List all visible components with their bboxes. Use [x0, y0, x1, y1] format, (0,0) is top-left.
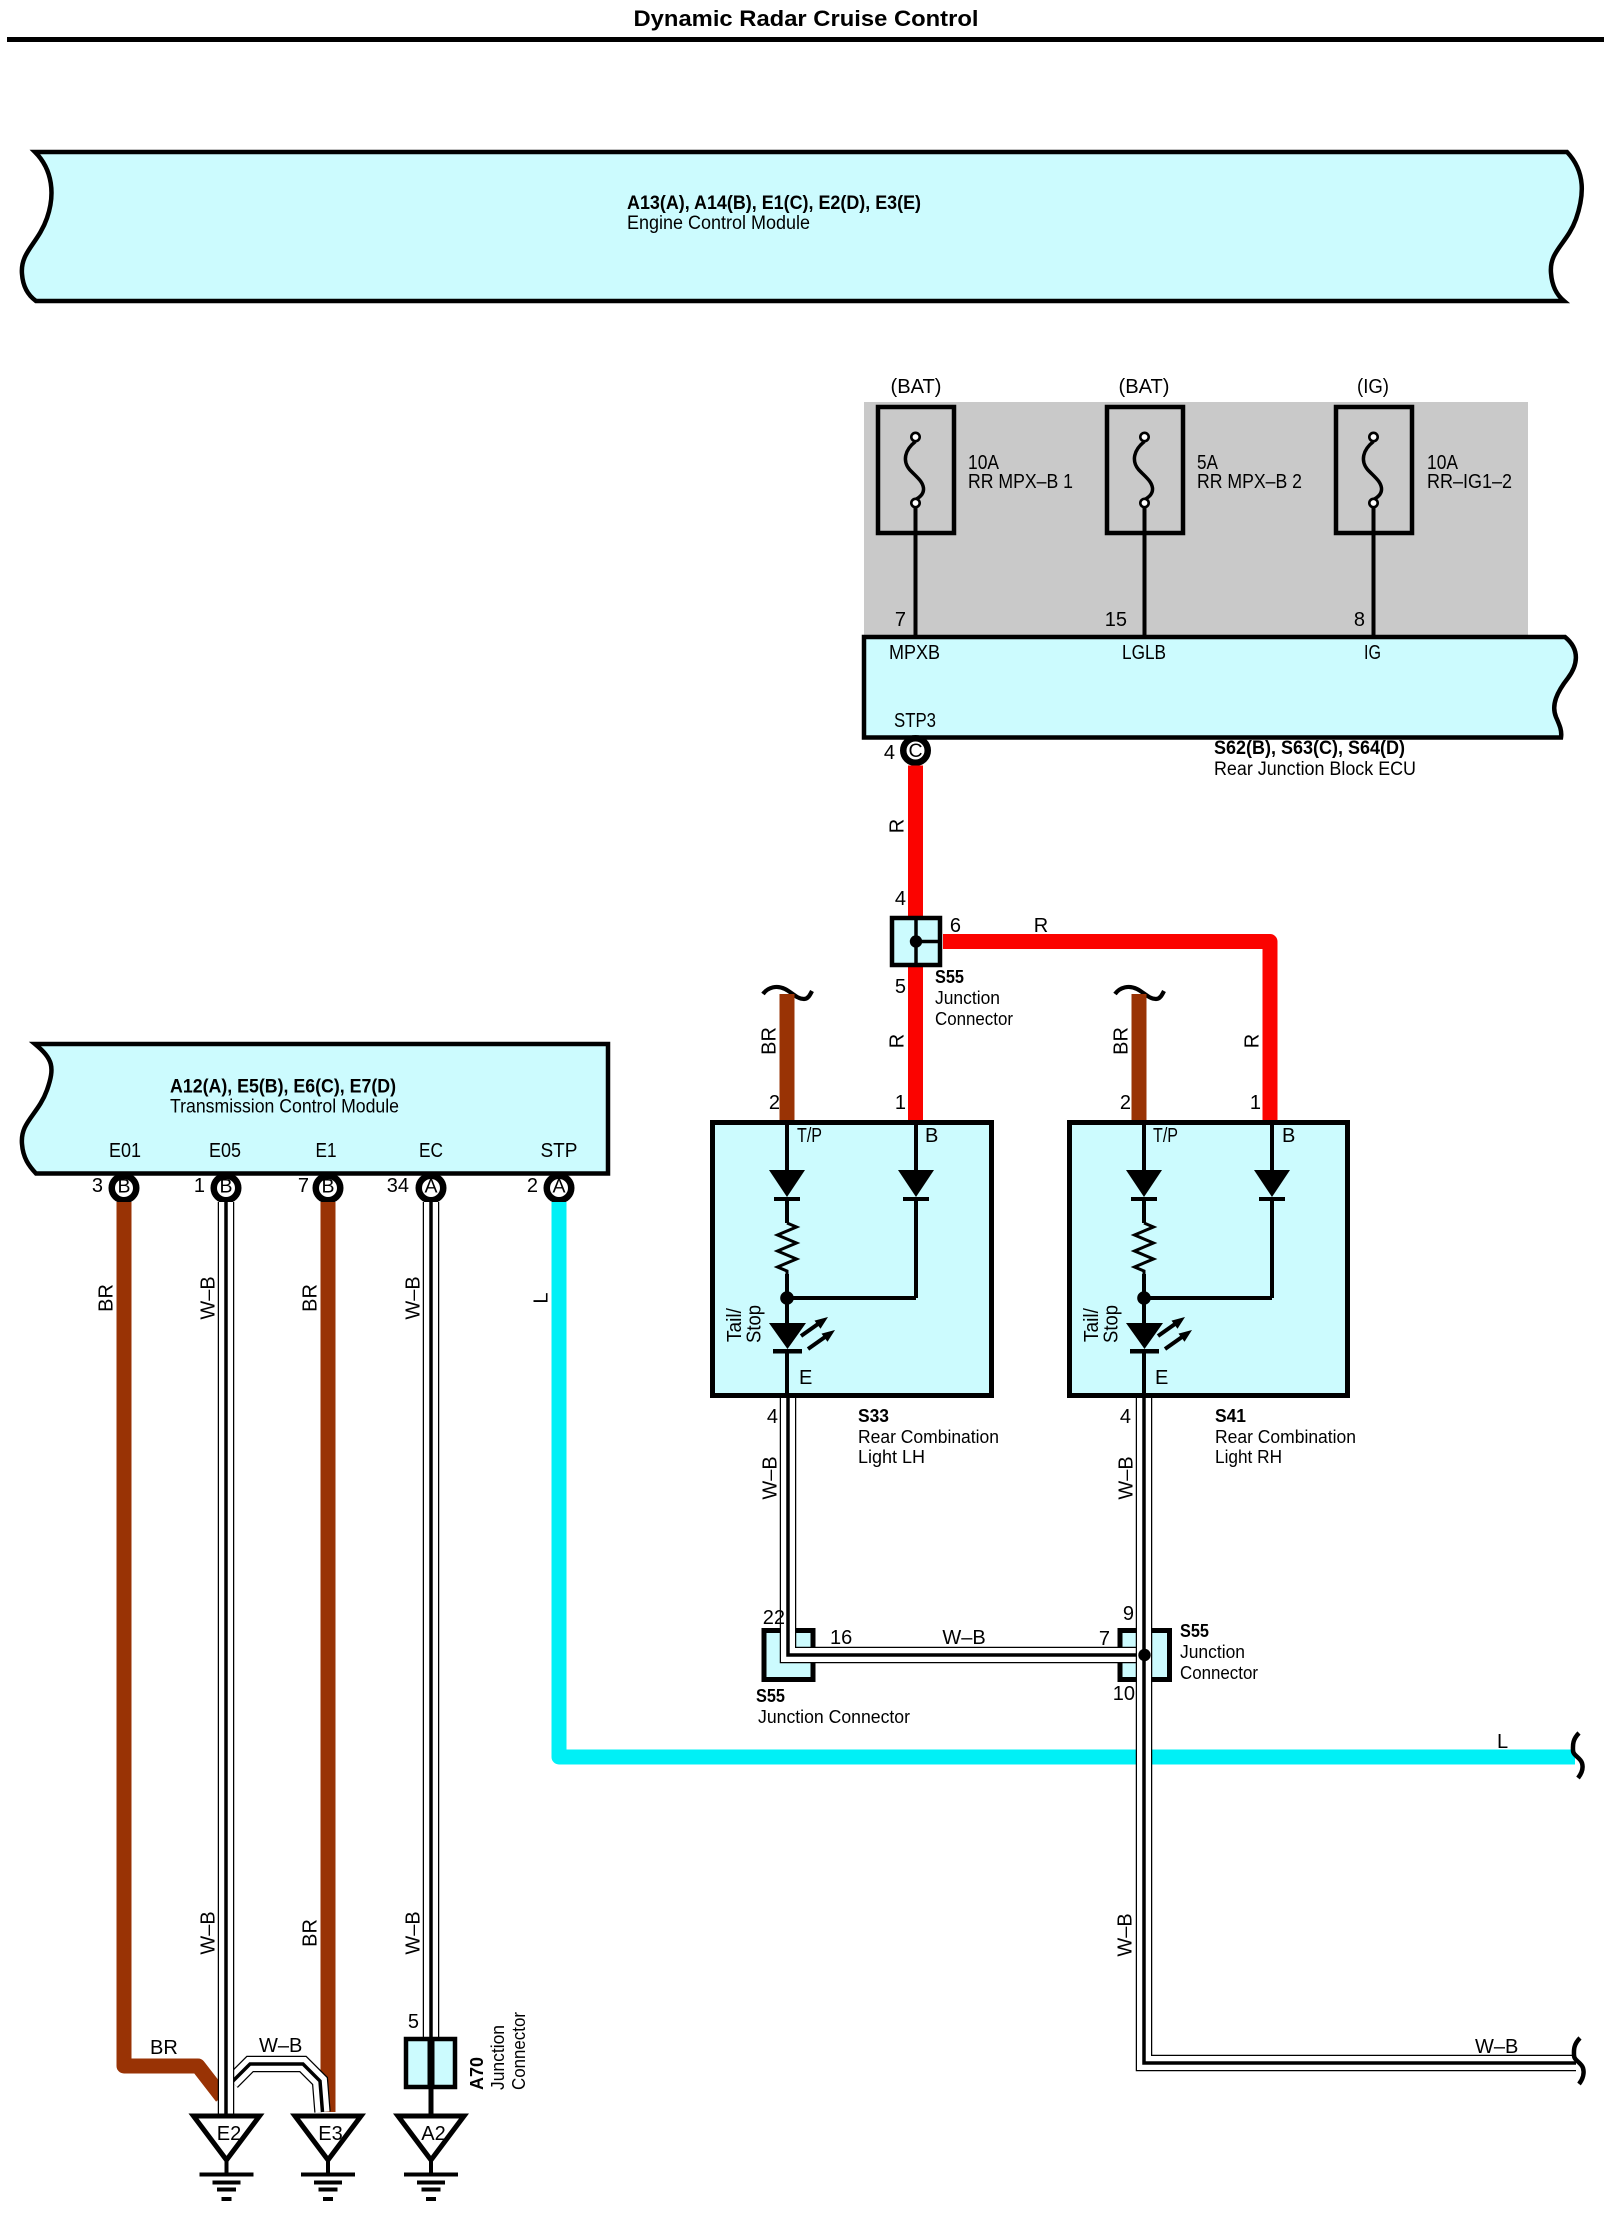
S33 label T/P [797, 1125, 822, 1147]
TCM pin 1 (B) connector [194, 1175, 238, 1200]
S55 right labels [1099, 1603, 1258, 1705]
pin 4 label above S55 [895, 888, 906, 910]
svg-text:E3: E3 [318, 2123, 342, 2145]
wire BR from TCM E01 to ground E2 area [124, 1202, 222, 2097]
svg-text:EC: EC [419, 1140, 443, 1162]
svg-text:A: A [552, 1176, 565, 1198]
label R rotated right branch [1242, 1034, 1264, 1048]
S41 diode D1 (T/P) [1126, 1170, 1162, 1223]
svg-text:Light RH: Light RH [1215, 1447, 1282, 1467]
svg-text:15: 15 [1105, 609, 1127, 631]
S33 label E [799, 1367, 812, 1389]
TCM pin 2 (A) connector [527, 1175, 571, 1200]
svg-text:R: R [1034, 915, 1048, 937]
svg-text:16: 16 [830, 1627, 852, 1649]
S33 diode D1 (T/P) [769, 1170, 805, 1223]
wire R red S55 pin 6 to S41 pin B [943, 942, 1270, 1123]
svg-text:Rear Combination: Rear Combination [1215, 1427, 1356, 1447]
label W-B right bottom [1475, 2036, 1518, 2058]
svg-text:Rear Combination: Rear Combination [858, 1427, 999, 1447]
label L at right end [1497, 1731, 1508, 1753]
svg-text:1: 1 [194, 1175, 205, 1197]
S33 junction node [780, 1291, 916, 1323]
S33 resistor [778, 1223, 797, 1292]
svg-text:(IG): (IG) [1357, 376, 1389, 398]
svg-text:BR: BR [759, 1027, 781, 1055]
svg-text:10: 10 [1113, 1683, 1135, 1705]
svg-text:Stop: Stop [1101, 1305, 1123, 1343]
junction connector S55 (right) box [1120, 1631, 1170, 1680]
svg-text:Rear Junction Block ECU: Rear Junction Block ECU [1214, 759, 1416, 780]
continuation squiggle W-B right end [1574, 2038, 1584, 2084]
svg-text:W–B: W–B [1116, 1456, 1138, 1499]
svg-text:A70: A70 [467, 2057, 487, 2090]
svg-text:Connector: Connector [935, 1009, 1013, 1029]
svg-text:5: 5 [895, 976, 906, 998]
svg-text:W–B: W–B [198, 1911, 220, 1954]
svg-text:S55: S55 [935, 967, 964, 987]
wire R red S55 pin 5 down to S33 pin B [908, 965, 923, 1122]
svg-text:R: R [887, 1034, 909, 1048]
label W-B rotated lower (EC) [403, 1911, 425, 1954]
svg-text:4: 4 [884, 742, 895, 764]
Rear Junction Block ECU band S62(B) S63(C) S64(D) [864, 637, 1576, 780]
svg-text:RR MPX–B 2: RR MPX–B 2 [1197, 471, 1302, 493]
label L rotated [531, 1292, 553, 1303]
wire W-B from TCM EC to A70 [423, 1202, 440, 2039]
S41 LED Tail/Stop [1126, 1317, 1192, 1398]
svg-text:Junction Connector: Junction Connector [758, 1707, 910, 1727]
svg-text:B: B [321, 1176, 334, 1198]
svg-text:S55: S55 [1180, 1621, 1209, 1641]
fuse RR-IG1-2 10A [1336, 376, 1512, 637]
svg-text:E: E [1155, 1367, 1168, 1389]
svg-text:A13(A), A14(B), E1(C), E2(D),: A13(A), A14(B), E1(C), E2(D), E3(E) [627, 193, 921, 214]
svg-text:1: 1 [895, 1092, 906, 1114]
ground E2 [194, 2116, 260, 2201]
TCM pin 34 (A) connector [387, 1175, 444, 1200]
svg-text:IG: IG [1364, 642, 1381, 664]
junction connector S55 (left) box [764, 1631, 813, 1680]
label W-B rotated upper (EC) [403, 1276, 425, 1319]
ECU module band: Engine Control Module A13(A) A14(B) E1(C) E2(D) E3(E) [22, 152, 1582, 301]
svg-text:2: 2 [769, 1092, 780, 1114]
svg-text:MPXB: MPXB [889, 642, 940, 664]
svg-text:Stop: Stop [744, 1305, 766, 1343]
svg-text:S33: S33 [858, 1406, 889, 1426]
label W-B rotated lower (E05) [198, 1911, 220, 1954]
svg-text:Connector: Connector [1180, 1663, 1258, 1683]
svg-text:W–B: W–B [403, 1276, 425, 1319]
svg-text:T/P: T/P [1153, 1125, 1178, 1147]
label W-B rotated (right lower) [1115, 1913, 1137, 1956]
svg-text:W–B: W–B [1115, 1913, 1137, 1956]
label BR rotated (S41) [1111, 1027, 1133, 1055]
junction block gray area [864, 402, 1528, 636]
S41 Rear Combination Light RH box [1070, 1123, 1348, 1396]
label W-B rotated below S33 [760, 1456, 782, 1499]
svg-text:Connector: Connector [509, 2012, 529, 2090]
svg-text:E01: E01 [109, 1140, 141, 1162]
pin 4 (C) connector STP3 [884, 738, 928, 764]
S33 label Tail/Stop rotated [724, 1305, 766, 1343]
wire W-B from TCM E05 to ground E2 [218, 1202, 235, 2114]
junction connector S55 (top) [892, 918, 940, 965]
wire R red from STP3 to S55 [908, 766, 923, 919]
svg-text:7: 7 [298, 1175, 309, 1197]
wire BR from TCM E1 to ground E3 [321, 1202, 336, 2112]
fuse RR MPX-B 1 10A [878, 376, 1073, 637]
pin numbers above S41 [1120, 1092, 1261, 1114]
svg-text:B: B [219, 1176, 232, 1198]
svg-text:RR MPX–B 1: RR MPX–B 1 [968, 471, 1073, 493]
title Dynamic Radar Cruise Control [7, 6, 1604, 42]
svg-text:(BAT): (BAT) [1119, 376, 1170, 398]
label BR rotated (S33) [759, 1027, 781, 1055]
S41 label Tail/Stop rotated [1081, 1305, 1123, 1343]
S33 Rear Combination Light LH box [713, 1123, 992, 1396]
svg-text:E1: E1 [316, 1140, 337, 1162]
wire W-B from S41 E through S55 right down and to right edge [1144, 1398, 1576, 2063]
svg-text:4: 4 [895, 888, 906, 910]
junction connector A70 [406, 2011, 455, 2114]
svg-text:E05: E05 [209, 1140, 241, 1162]
svg-text:(BAT): (BAT) [891, 376, 942, 398]
pin 4 below S41 [1120, 1406, 1131, 1428]
svg-text:1: 1 [1250, 1092, 1261, 1114]
svg-text:Dynamic Radar Cruise Control: Dynamic Radar Cruise Control [634, 6, 979, 31]
svg-text:R: R [1242, 1034, 1264, 1048]
S41 label E [1155, 1367, 1168, 1389]
svg-text:Junction: Junction [935, 988, 1000, 1008]
svg-text:W–B: W–B [198, 1276, 220, 1319]
svg-text:E: E [799, 1367, 812, 1389]
wire BR to S33 T/P with continuation squiggle [763, 987, 812, 1122]
svg-text:S41: S41 [1215, 1406, 1246, 1426]
svg-text:4: 4 [1120, 1406, 1131, 1428]
svg-text:B: B [925, 1125, 938, 1147]
S33 T/P input wire [785, 1122, 789, 1170]
label R rotated [887, 819, 909, 833]
svg-text:9: 9 [1123, 1603, 1134, 1625]
continuation squiggle L wire right end [1573, 1733, 1583, 1778]
svg-text:BR: BR [96, 1284, 118, 1312]
svg-text:Engine Control Module: Engine Control Module [627, 213, 810, 234]
svg-text:22: 22 [763, 1607, 785, 1629]
svg-text:2: 2 [1120, 1092, 1131, 1114]
wire BR to S41 T/P with continuation squiggle [1115, 987, 1164, 1122]
svg-text:A: A [424, 1176, 437, 1198]
S41 diode D2 (B) [1254, 1122, 1290, 1298]
label BR at bend [150, 2037, 178, 2059]
svg-text:A2: A2 [421, 2123, 445, 2145]
wire W-B from S33 E turning right to S55 right [788, 1398, 1146, 1655]
S33 label B [925, 1125, 938, 1147]
svg-text:S62(B), S63(C), S64(D): S62(B), S63(C), S64(D) [1214, 738, 1405, 759]
wire L cyan from STP down and right [559, 1202, 1575, 1757]
label R rotated below S55 [887, 1034, 909, 1048]
svg-text:L: L [531, 1292, 553, 1303]
svg-text:7: 7 [1099, 1628, 1110, 1650]
svg-text:BR: BR [300, 1284, 322, 1312]
svg-text:STP: STP [541, 1140, 578, 1162]
A70 labels rotated [467, 2012, 529, 2090]
svg-text:C: C [908, 740, 922, 762]
svg-text:A12(A), E5(B), E6(C), E7(D): A12(A), E5(B), E6(C), E7(D) [170, 1077, 396, 1098]
label W-B horizontal [942, 1627, 985, 1649]
svg-text:T/P: T/P [797, 1125, 822, 1147]
svg-text:W–B: W–B [942, 1627, 985, 1649]
svg-text:Junction: Junction [488, 2025, 508, 2090]
svg-text:BR: BR [1111, 1027, 1133, 1055]
svg-text:5: 5 [408, 2011, 419, 2033]
label BR rotated upper (E1) [300, 1284, 322, 1312]
svg-text:8: 8 [1354, 609, 1365, 631]
S55 labels top [895, 915, 1048, 1029]
S41 T/P input wire [1142, 1122, 1146, 1170]
pin numbers above S33 [769, 1092, 906, 1114]
svg-text:6: 6 [950, 915, 961, 937]
S41 junction node [1137, 1291, 1272, 1323]
svg-text:2: 2 [527, 1175, 538, 1197]
svg-text:E2: E2 [217, 2123, 241, 2145]
S41 resistor [1135, 1223, 1154, 1292]
S41 label B [1282, 1125, 1295, 1147]
svg-text:7: 7 [895, 609, 906, 631]
svg-text:B: B [117, 1176, 130, 1198]
TCM pin 7 (B) connector [298, 1175, 340, 1200]
Transmission Control Module band A12(A) E5(B) E6(C) E7(D) [22, 1044, 608, 1174]
label W-B rotated upper (E05) [198, 1276, 220, 1319]
fuse RR MPX-B 2 5A [1105, 376, 1302, 637]
ground E3 [295, 2116, 361, 2201]
svg-text:W–B: W–B [259, 2035, 302, 2057]
S33 LED Tail/Stop [769, 1317, 835, 1398]
svg-text:B: B [1282, 1125, 1295, 1147]
svg-text:W–B: W–B [760, 1456, 782, 1499]
svg-text:LGLB: LGLB [1122, 642, 1166, 664]
svg-text:4: 4 [767, 1406, 778, 1428]
label BR rotated lower (E1) [300, 1919, 322, 1947]
svg-text:BR: BR [150, 2037, 178, 2059]
label W-B rotated below S41 [1116, 1456, 1138, 1499]
svg-text:Junction: Junction [1180, 1642, 1245, 1662]
svg-text:W–B: W–B [403, 1911, 425, 1954]
svg-text:Transmission Control Module: Transmission Control Module [170, 1097, 399, 1118]
svg-text:3: 3 [92, 1175, 103, 1197]
svg-text:STP3: STP3 [894, 710, 936, 732]
TCM pin 3 (B) connector [92, 1175, 136, 1200]
pin 4 below S33 [767, 1406, 778, 1428]
svg-text:RR–IG1–2: RR–IG1–2 [1427, 471, 1512, 493]
ground A2 [398, 2116, 464, 2201]
svg-text:S55: S55 [756, 1686, 785, 1706]
label W-B above branch [259, 2035, 302, 2057]
S41 label T/P [1153, 1125, 1178, 1147]
S33 name labels [858, 1406, 999, 1467]
svg-text:34: 34 [387, 1175, 409, 1197]
S41 name labels [1215, 1406, 1356, 1467]
S55 left labels [756, 1607, 910, 1727]
svg-text:R: R [887, 819, 909, 833]
svg-text:L: L [1497, 1731, 1508, 1753]
wire W-B branch from E05 wire to ground E3 [232, 2064, 323, 2112]
S33 diode D2 (B) [898, 1122, 934, 1298]
label BR rotated upper (E01) [96, 1284, 118, 1312]
svg-text:Light LH: Light LH [858, 1447, 925, 1467]
svg-text:BR: BR [300, 1919, 322, 1947]
junction dot S55 right [1138, 1649, 1150, 1661]
svg-text:W–B: W–B [1475, 2036, 1518, 2058]
